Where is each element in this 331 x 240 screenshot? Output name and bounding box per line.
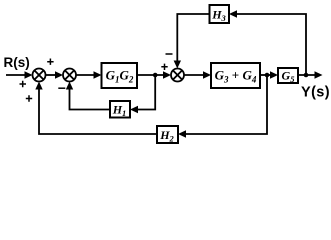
- svg-text:G3 + G4: G3 + G4: [215, 68, 257, 85]
- svg-text:Y(s): Y(s): [301, 85, 330, 101]
- svg-text:R(s): R(s): [4, 55, 30, 70]
